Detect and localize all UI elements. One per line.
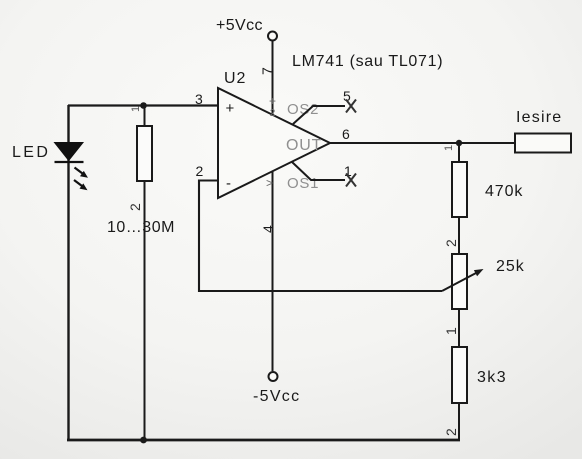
terminal Iesire rectangle (515, 134, 571, 153)
svg-text:2: 2 (270, 108, 276, 119)
LED (55, 143, 89, 191)
potentiometer RV1 25k body (452, 254, 467, 309)
node C: output junction dot (456, 140, 462, 146)
svg-text:3k3: 3k3 (477, 369, 507, 386)
wire: pin 7 +5Vcc vertical (272, 41, 274, 116)
node A: junction dot pin3/R branch (140, 102, 147, 109)
wire: pin 4 -5Vcc vertical (272, 172, 274, 372)
svg-text:2: 2 (127, 203, 143, 211)
svg-text:1: 1 (130, 106, 142, 112)
svg-text:25k: 25k (496, 258, 525, 275)
svg-text:2: 2 (443, 239, 459, 247)
svg-text:+5Vcc: +5Vcc (216, 17, 263, 34)
svg-text:OUT: OUT (286, 137, 322, 154)
wire: bottom horizontal rail (67, 439, 460, 442)
svg-text:3: 3 (195, 91, 203, 107)
node B: junction dot bottom rail / R branch (140, 437, 147, 444)
X mark NC pin1 (346, 174, 356, 187)
svg-text:+: + (269, 94, 276, 108)
svg-text:-5Vcc: -5Vcc (253, 388, 300, 405)
svg-text:>: > (266, 176, 273, 190)
resistor R1 10...30M (137, 106, 152, 441)
pot wiper arrow (442, 273, 477, 292)
resistor R2 470k (452, 143, 467, 254)
-5Vcc terminal circle (269, 372, 278, 381)
svg-text:2: 2 (443, 428, 459, 436)
svg-text:6: 6 (342, 126, 350, 142)
svg-text:470k: 470k (485, 183, 523, 200)
svg-text:1: 1 (443, 327, 459, 335)
svg-text:10…30M: 10…30M (107, 219, 175, 236)
wire: feedback pin2 to pot wiper (199, 181, 442, 292)
svg-text:Iesire: Iesire (516, 109, 562, 126)
X mark NC pin5 (346, 100, 356, 113)
wire: OS1 stub (292, 162, 345, 180)
svg-text:+: + (226, 100, 235, 117)
wire: output pin6 to Iesire (330, 142, 515, 144)
wire: OS2 stub (293, 106, 345, 124)
svg-text:U2: U2 (224, 70, 246, 87)
svg-text:1: 1 (443, 145, 455, 151)
svg-text:LED: LED (12, 144, 50, 161)
svg-text:OS1: OS1 (287, 175, 319, 192)
op-amp U2 triangle (218, 88, 330, 198)
svg-text:LM741 (sau TL071): LM741 (sau TL071) (292, 53, 443, 70)
wire: pot lower lead (458, 309, 460, 347)
resistor R3 3k3 (452, 347, 467, 441)
svg-text:-: - (226, 175, 231, 192)
svg-text:4: 4 (260, 225, 276, 233)
wire: pin3 horizontal from LED branch to op-amp (68, 104, 218, 106)
wire: LED left vertical branch (67, 105, 69, 441)
svg-text:2: 2 (196, 163, 204, 179)
+5Vcc terminal circle (268, 32, 277, 41)
